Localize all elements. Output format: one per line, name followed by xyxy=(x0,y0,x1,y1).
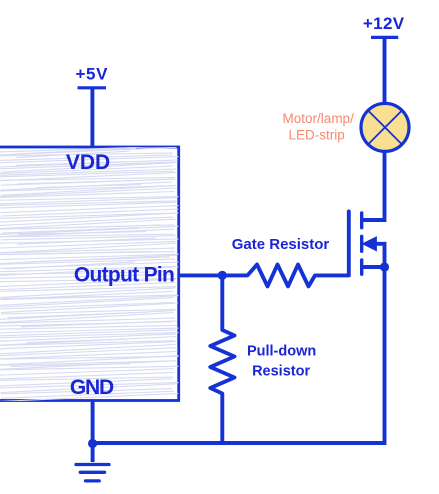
resistor R1 gate resistor and wire to gate xyxy=(222,212,348,287)
wire +12V to load xyxy=(383,37,387,104)
ground symbol xyxy=(76,465,109,481)
source wire, down to ground rail and across to ground xyxy=(93,267,385,443)
microcontroller block U1 xyxy=(0,146,180,402)
svg-text:LED-strip: LED-strip xyxy=(288,127,344,142)
svg-text:Motor/lamp/: Motor/lamp/ xyxy=(283,111,355,126)
+12V supply symbol xyxy=(363,14,405,38)
svg-text:Gate Resistor: Gate Resistor xyxy=(232,236,330,253)
load lamp symbol (circle with X) xyxy=(361,103,409,151)
transistor Q1 N-channel MOSFET channel bars xyxy=(360,213,363,274)
wire Output Pin to node A xyxy=(179,273,223,277)
wire +5V to VDD pin xyxy=(90,88,94,147)
label Pull-down Resistor xyxy=(247,344,316,380)
resistor R2 pull-down resistor with leads xyxy=(210,275,234,443)
svg-text:GND: GND xyxy=(70,376,114,399)
transistor Q1 body arrow xyxy=(363,237,377,251)
svg-text:Output Pin: Output Pin xyxy=(74,264,174,287)
svg-text:+5V: +5V xyxy=(76,65,109,84)
svg-text:Resistor: Resistor xyxy=(252,363,310,379)
svg-text:+12V: +12V xyxy=(363,14,405,33)
transistor Q1 body lead to source xyxy=(374,244,385,267)
node A junction dot xyxy=(218,271,227,280)
wire GND pin to ground rail xyxy=(91,401,95,463)
svg-text:Pull-down: Pull-down xyxy=(247,344,316,360)
wire load to MOSFET drain xyxy=(362,151,385,220)
svg-text:VDD: VDD xyxy=(66,151,110,174)
load label Motor/lamp/LED-strip xyxy=(283,111,355,142)
ground junction dot xyxy=(88,439,97,448)
+5V supply symbol xyxy=(76,65,109,88)
source junction dot xyxy=(380,262,389,271)
